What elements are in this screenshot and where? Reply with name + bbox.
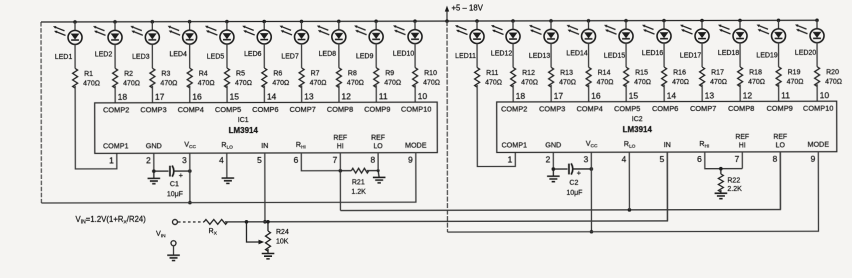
wire ref net IC1 pin7 to IC2 pin4 and pin8 xyxy=(340,152,780,212)
LED9 xyxy=(354,19,383,67)
wire IC1 pin4 RLO stub xyxy=(226,153,228,178)
svg-text:C2: C2 xyxy=(569,180,578,187)
svg-text:R19: R19 xyxy=(788,69,801,76)
resistor R11 470 ohm xyxy=(475,67,516,166)
svg-text:COMP10: COMP10 xyxy=(401,105,431,114)
svg-text:LED3: LED3 xyxy=(132,54,150,61)
resistor R5 470 ohm xyxy=(225,68,253,103)
svg-text:LO: LO xyxy=(373,143,383,150)
svg-text:2: 2 xyxy=(546,154,551,164)
LED19 xyxy=(756,19,785,67)
wire V+ net to IC2 pin3 and pin9 mode xyxy=(447,152,818,232)
svg-text:LED2: LED2 xyxy=(95,51,113,58)
LED12 xyxy=(491,19,520,67)
svg-text:10: 10 xyxy=(820,90,830,100)
svg-text:LED16: LED16 xyxy=(642,50,664,57)
svg-text:11: 11 xyxy=(781,90,790,100)
resistor R7 470 ohm xyxy=(299,68,327,103)
svg-text:IC1: IC1 xyxy=(238,117,249,124)
svg-text:5: 5 xyxy=(660,154,665,164)
ground at IC1 pin4 xyxy=(222,178,235,183)
svg-text:470Ω: 470Ω xyxy=(672,79,689,86)
label input formula VIN=1.2V(1+RX/R24) xyxy=(75,215,146,226)
LED15 xyxy=(604,19,633,67)
svg-text:7: 7 xyxy=(735,154,740,164)
IC1 bottom pin function labels xyxy=(103,135,427,151)
svg-text:R14: R14 xyxy=(598,70,611,77)
svg-text:R18: R18 xyxy=(749,69,762,76)
IC IC2 LM3914 body xyxy=(497,101,837,152)
svg-text:10μF: 10μF xyxy=(167,191,183,198)
svg-text:+5 – 18V: +5 – 18V xyxy=(451,3,483,12)
svg-text:3: 3 xyxy=(584,154,589,164)
svg-text:470Ω: 470Ω xyxy=(485,79,502,86)
svg-text:470Ω: 470Ω xyxy=(83,80,100,87)
svg-text:470Ω: 470Ω xyxy=(559,79,576,86)
svg-text:COMP6: COMP6 xyxy=(652,104,678,113)
LED10 xyxy=(393,19,422,67)
wire IC2 pin3 Vcc drop xyxy=(589,152,593,233)
resistor R14 470 ohm xyxy=(586,67,614,102)
svg-text:MODE: MODE xyxy=(807,140,829,149)
svg-text:R3: R3 xyxy=(161,71,170,78)
svg-text:R6: R6 xyxy=(273,70,282,77)
svg-text:LED7: LED7 xyxy=(281,53,299,60)
resistor R17 470 ohm xyxy=(700,67,728,102)
capacitor C1 10uF xyxy=(154,165,192,198)
LED5 xyxy=(205,20,234,68)
wire IC2 pin2 GND stub xyxy=(551,152,555,171)
wire +V supply rail xyxy=(41,20,817,22)
svg-text:COMP1: COMP1 xyxy=(103,141,129,150)
svg-text:COMP6: COMP6 xyxy=(252,105,278,114)
svg-text:470Ω: 470Ω xyxy=(748,79,765,86)
svg-text:14: 14 xyxy=(667,91,677,101)
svg-text:HI: HI xyxy=(337,143,344,150)
svg-text:LM3914: LM3914 xyxy=(623,125,653,134)
svg-text:6: 6 xyxy=(294,155,299,165)
svg-text:9: 9 xyxy=(408,155,413,165)
resistor R10 470 ohm xyxy=(413,68,441,103)
ground at R24 xyxy=(262,253,275,258)
svg-text:470Ω: 470Ω xyxy=(787,79,804,86)
LED17 xyxy=(680,19,709,67)
svg-text:LED18: LED18 xyxy=(718,50,740,57)
svg-text:R10: R10 xyxy=(424,70,437,77)
svg-text:10K: 10K xyxy=(276,238,289,245)
svg-text:LED10: LED10 xyxy=(393,51,415,58)
svg-text:17: 17 xyxy=(554,91,564,101)
wire IC1 pin2 GND stub xyxy=(152,153,156,173)
svg-text:HI: HI xyxy=(739,142,746,149)
svg-text:COMP2: COMP2 xyxy=(103,105,129,114)
svg-text:470Ω: 470Ω xyxy=(825,79,842,86)
svg-text:COMP4: COMP4 xyxy=(577,104,603,113)
capacitor C2 10uF xyxy=(553,163,593,196)
svg-text:R24: R24 xyxy=(276,229,289,236)
svg-text:R7: R7 xyxy=(311,70,320,77)
LED13 xyxy=(529,19,558,67)
svg-text:COMP7: COMP7 xyxy=(690,104,716,113)
svg-text:18: 18 xyxy=(516,91,526,101)
ground at input return terminal xyxy=(167,246,180,261)
svg-text:470Ω: 470Ω xyxy=(272,80,289,87)
LED8 xyxy=(317,20,346,68)
svg-text:R11: R11 xyxy=(486,70,498,77)
svg-text:4: 4 xyxy=(622,154,627,164)
resistor R6 470 ohm xyxy=(262,68,290,103)
IC2 bottom pin function labels xyxy=(501,134,829,150)
power +5-18V supply arrow xyxy=(445,3,484,22)
IC IC1 LM3914 body xyxy=(95,102,438,153)
svg-text:11: 11 xyxy=(379,91,388,101)
svg-text:9: 9 xyxy=(811,154,816,164)
LED6 xyxy=(242,20,271,68)
ground at IC2 pin2 xyxy=(547,169,560,182)
svg-text:MODE: MODE xyxy=(405,141,427,150)
svg-text:470Ω: 470Ω xyxy=(198,80,215,87)
svg-text:2.2K: 2.2K xyxy=(727,186,742,193)
resistor R19 470 ohm xyxy=(776,67,804,102)
svg-text:14: 14 xyxy=(267,91,277,101)
svg-text:LED11: LED11 xyxy=(455,53,476,60)
svg-text:R12: R12 xyxy=(522,70,535,77)
svg-text:REF: REF xyxy=(333,135,347,142)
svg-text:15: 15 xyxy=(629,91,639,101)
svg-text:R2: R2 xyxy=(124,71,133,78)
svg-text:3: 3 xyxy=(182,155,187,165)
svg-text:1: 1 xyxy=(109,155,114,165)
svg-text:470Ω: 470Ω xyxy=(347,80,364,87)
LED3 xyxy=(130,20,159,68)
resistor R15 470 ohm xyxy=(624,67,652,102)
svg-text:R22: R22 xyxy=(727,177,740,184)
svg-text:COMP9: COMP9 xyxy=(364,105,390,114)
svg-text:R4: R4 xyxy=(199,71,208,78)
wire IC1 pin8 REF LO stub xyxy=(377,153,379,171)
svg-text:LED19: LED19 xyxy=(756,52,778,59)
svg-text:12: 12 xyxy=(743,90,753,100)
svg-text:16: 16 xyxy=(591,91,601,101)
svg-text:13: 13 xyxy=(304,91,314,101)
svg-text:COMP8: COMP8 xyxy=(327,105,353,114)
resistor R18 470 ohm xyxy=(738,67,766,102)
svg-text:5: 5 xyxy=(257,155,262,165)
wire +V drop to IC2 V+ wire xyxy=(446,21,448,232)
wire IC1 pin3 Vcc drop xyxy=(188,153,192,204)
resistor R21 1.2K xyxy=(340,168,379,196)
wire IC1 pin6 RHI to pin7 xyxy=(301,153,342,173)
svg-text:COMP5: COMP5 xyxy=(215,105,241,114)
wire signal net RX to IC1 pin5 R24 and IC2 pin5 xyxy=(225,152,668,224)
svg-text:REF: REF xyxy=(773,134,787,141)
svg-text:470Ω: 470Ω xyxy=(710,79,727,86)
wire V+ net to IC1 pin3 and pin9 mode xyxy=(41,153,416,203)
resistor RX xyxy=(204,219,228,236)
resistor R16 470 ohm xyxy=(662,67,690,102)
wire IC2 pin6 RHI to pin7 xyxy=(705,152,743,171)
svg-text:10μF: 10μF xyxy=(566,190,582,197)
wire dashed VIN to RX xyxy=(178,221,204,223)
LED14 xyxy=(566,19,595,67)
svg-text:COMP2: COMP2 xyxy=(501,104,527,113)
wire IC2 pin7 REF HI stub xyxy=(741,152,743,169)
IC1 top pin numbers 18-10 and COMP2-COMP10 labels xyxy=(103,91,431,114)
svg-text:R16: R16 xyxy=(673,70,686,77)
resistor R12 470 ohm xyxy=(511,67,539,102)
svg-text:13: 13 xyxy=(705,90,715,100)
svg-text:LED17: LED17 xyxy=(680,53,702,60)
svg-text:R13: R13 xyxy=(560,70,573,77)
svg-text:LED15: LED15 xyxy=(604,53,626,60)
svg-text:C1: C1 xyxy=(170,181,179,188)
svg-text:R9: R9 xyxy=(385,70,394,77)
svg-text:COMP3: COMP3 xyxy=(539,104,565,113)
svg-text:LED4: LED4 xyxy=(169,51,187,58)
resistor R13 470 ohm xyxy=(549,67,577,102)
svg-text:6: 6 xyxy=(697,154,702,164)
node VIN input terminal xyxy=(156,219,178,245)
svg-text:4: 4 xyxy=(219,155,224,165)
potentiometer R24 10K xyxy=(246,222,289,254)
svg-text:R5: R5 xyxy=(236,71,245,78)
svg-text:470Ω: 470Ω xyxy=(597,79,614,86)
svg-text:+: + xyxy=(577,168,582,177)
svg-text:470Ω: 470Ω xyxy=(423,80,440,87)
svg-text:15: 15 xyxy=(230,92,240,102)
svg-text:LED9: LED9 xyxy=(356,53,374,60)
svg-text:LED5: LED5 xyxy=(207,54,225,61)
LED4 xyxy=(168,20,197,68)
svg-text:12: 12 xyxy=(341,91,351,101)
svg-text:LED20: LED20 xyxy=(795,50,817,57)
svg-text:LM3914: LM3914 xyxy=(229,126,259,135)
wire IC2 pin8 REF LO drop xyxy=(779,152,781,210)
svg-text:1.2K: 1.2K xyxy=(351,189,366,196)
resistor R2 470 ohm xyxy=(113,68,141,103)
svg-text:18: 18 xyxy=(118,92,128,102)
svg-text:470Ω: 470Ω xyxy=(384,80,401,87)
svg-text:17: 17 xyxy=(155,92,165,102)
svg-text:LED1: LED1 xyxy=(55,54,73,61)
svg-text:R20: R20 xyxy=(826,69,839,76)
svg-text:COMP9: COMP9 xyxy=(767,104,793,113)
svg-text:LED14: LED14 xyxy=(566,50,588,57)
svg-text:R21: R21 xyxy=(352,179,365,186)
svg-text:GND: GND xyxy=(146,141,162,150)
resistor R22 2.2K xyxy=(718,169,742,194)
svg-text:IC2: IC2 xyxy=(632,116,643,123)
svg-text:COMP5: COMP5 xyxy=(614,104,640,113)
svg-text:R15: R15 xyxy=(635,70,648,77)
ground at IC1 pin2 xyxy=(148,171,161,184)
svg-text:R1: R1 xyxy=(84,71,93,78)
svg-text:1: 1 xyxy=(508,154,513,164)
svg-text:470Ω: 470Ω xyxy=(235,80,252,87)
svg-text:COMP8: COMP8 xyxy=(728,104,754,113)
resistor R3 470 ohm xyxy=(150,68,178,103)
svg-text:7: 7 xyxy=(333,155,338,165)
svg-text:REF: REF xyxy=(371,135,385,142)
svg-text:LED12: LED12 xyxy=(491,50,513,57)
resistor R1 470 ohm xyxy=(73,68,117,169)
LED16 xyxy=(642,19,671,67)
svg-text:LED8: LED8 xyxy=(319,51,337,58)
svg-text:470Ω: 470Ω xyxy=(634,79,651,86)
svg-text:IN: IN xyxy=(261,141,268,150)
svg-text:COMP10: COMP10 xyxy=(803,104,833,113)
svg-text:10: 10 xyxy=(418,91,428,101)
svg-text:LO: LO xyxy=(776,142,786,149)
svg-text:470Ω: 470Ω xyxy=(123,80,140,87)
LED20 xyxy=(795,18,824,66)
svg-text:R8: R8 xyxy=(348,70,357,77)
svg-text:LED6: LED6 xyxy=(244,51,262,58)
LED11 xyxy=(455,19,484,67)
wire IC2 pin5 IN drop xyxy=(666,152,668,221)
wire +V left drop to IC1 V+ wire xyxy=(40,22,42,203)
IC2 bottom pin numbers 1-9 xyxy=(508,154,816,165)
ground at R22 xyxy=(715,193,728,198)
svg-text:470Ω: 470Ω xyxy=(521,79,538,86)
svg-text:2: 2 xyxy=(146,155,151,165)
resistor R9 470 ohm xyxy=(374,68,402,103)
svg-text:GND: GND xyxy=(545,140,561,149)
svg-text:REF: REF xyxy=(735,134,749,141)
svg-text:COMP7: COMP7 xyxy=(290,105,316,114)
svg-text:COMP3: COMP3 xyxy=(140,105,166,114)
LED2 xyxy=(93,20,122,68)
IC2 top pin numbers 18-10 and COMP2-COMP10 labels xyxy=(501,90,833,113)
wire IC1 pin7 REF HI drop to ref wire xyxy=(339,153,341,211)
svg-text:IN: IN xyxy=(664,140,671,149)
wire IC2 pin4 RLO drop to ref wire xyxy=(628,152,630,210)
svg-text:COMP4: COMP4 xyxy=(178,105,204,114)
resistor R8 470 ohm xyxy=(336,68,364,103)
svg-text:LED13: LED13 xyxy=(529,53,551,60)
svg-text:8: 8 xyxy=(773,154,778,164)
resistor R4 470 ohm xyxy=(187,68,215,103)
svg-text:470Ω: 470Ω xyxy=(160,80,177,87)
svg-text:16: 16 xyxy=(192,92,202,102)
svg-text:R17: R17 xyxy=(711,69,724,76)
LED7 xyxy=(279,20,308,68)
resistor R20 470 ohm xyxy=(815,67,843,102)
LED18 xyxy=(718,19,747,67)
ground at IC1 pin8 xyxy=(373,171,386,183)
svg-text:8: 8 xyxy=(370,155,375,165)
LED1 xyxy=(53,20,82,68)
IC1 bottom pin numbers 1-9 xyxy=(109,155,413,166)
wire IC1 pin5 IN drop xyxy=(263,153,267,224)
svg-text:470Ω: 470Ω xyxy=(310,80,327,87)
svg-text:+: + xyxy=(179,171,184,180)
svg-text:COMP1: COMP1 xyxy=(501,140,527,149)
